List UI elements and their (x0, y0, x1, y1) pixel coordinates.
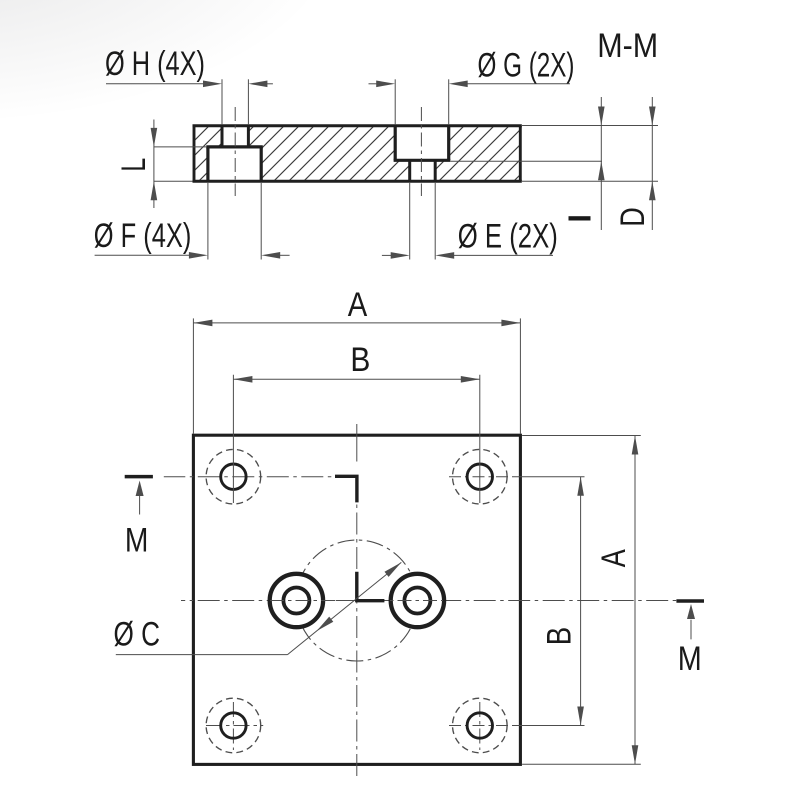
dimension H (4X) with extension lines (106, 79, 273, 124)
bottom-right corner hole (H/F) (453, 698, 508, 753)
counterbore F outline (206, 147, 262, 181)
svg-text:Ø F (4X): Ø F (4X) (94, 217, 192, 255)
centerline through bottom-left hole (206, 725, 263, 727)
centerline of hole G/E (420, 107, 422, 196)
plan view plate outline (193, 435, 520, 764)
centerline dashes across center holes (270, 600, 443, 602)
top-right corner hole (H/F) (453, 449, 508, 504)
counterbore G outline (394, 126, 451, 161)
vertical centerline bottom-right hole (479, 702, 481, 750)
svg-text:Ø H (4X): Ø H (4X) (105, 45, 205, 83)
centerline of hole H/F (234, 107, 236, 196)
svg-text:A: A (595, 549, 633, 567)
dimension A (right, plate height) (522, 436, 641, 765)
svg-text:M-M: M-M (597, 27, 658, 65)
dimension L (counterbore depth) (151, 120, 207, 209)
left cutting plane mark M (125, 477, 153, 515)
dimension E (2X) with extension lines (382, 183, 553, 260)
thick corner mark at plate center (357, 572, 385, 601)
horizontal centerline of plate (181, 600, 676, 602)
right center hole (G/E) (391, 574, 444, 627)
dimension F (4X) with extension lines (95, 183, 290, 260)
left center hole (G/E) (270, 574, 323, 627)
dimension B (right, hole spacing) (577, 477, 584, 726)
label I (569, 216, 591, 220)
svg-text:A: A (348, 286, 368, 324)
svg-text:L: L (115, 158, 153, 172)
extension lines for I and D (450, 126, 658, 182)
svg-text:Ø C: Ø C (114, 615, 161, 653)
dimension G (2X) with extension lines (369, 79, 571, 124)
dimension B (top, hole spacing) (233, 375, 479, 503)
counterbored hole H (through part) walls (222, 126, 248, 147)
plate cross-section outline (193, 126, 522, 181)
centerline through top-left hole (164, 476, 331, 478)
svg-text:Ø G (2X): Ø G (2X) (478, 47, 575, 85)
svg-text:M: M (125, 522, 149, 560)
thick corner mark at top centerline (335, 476, 357, 502)
dimension I (counterbore G depth) (598, 97, 605, 230)
svg-text:M: M (678, 640, 702, 678)
centerline through top-right hole + extension (449, 476, 585, 478)
dimension A (top, plate width) (193, 318, 520, 433)
bottom-left corner hole (H/F) (206, 698, 261, 753)
bolt circle (diameter C) (296, 540, 417, 661)
dimension D (plate thickness) (649, 97, 656, 230)
vertical centerline of plate (356, 424, 358, 776)
svg-text:D: D (614, 207, 652, 227)
svg-text:Ø E (2X): Ø E (2X) (458, 218, 558, 256)
centerline through bottom-right hole + extension (449, 725, 585, 727)
leader and arrows for bolt circle diameter C (116, 562, 402, 654)
through hole E walls (410, 160, 436, 181)
svg-text:B: B (540, 627, 578, 646)
vertical centerline bottom-left hole (232, 702, 234, 750)
hatch pattern of sectioned plate material (75, 95, 615, 245)
right cutting plane mark M (676, 601, 704, 639)
top-left corner hole (H/F) (206, 449, 261, 504)
svg-text:B: B (350, 341, 370, 379)
